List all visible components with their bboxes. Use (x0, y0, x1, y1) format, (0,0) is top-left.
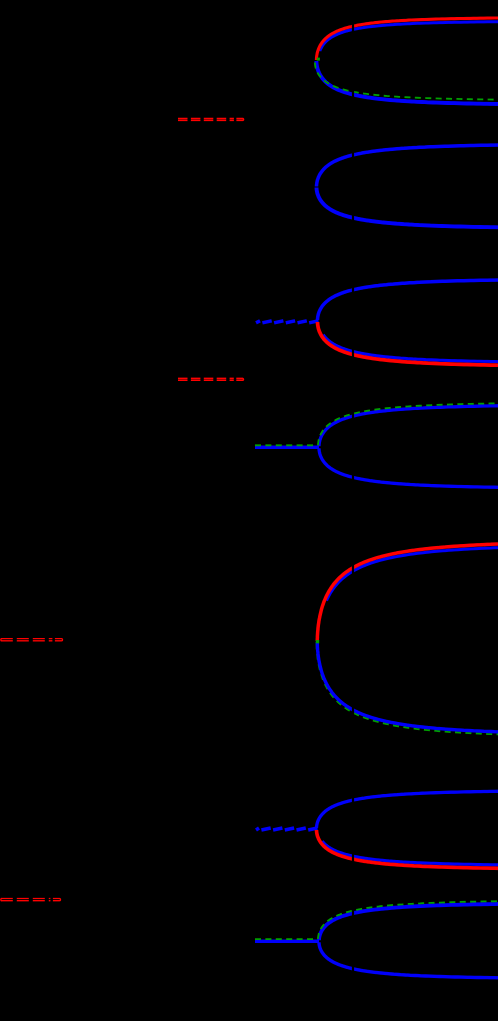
wire: B6 dashed blue stem line (256, 828, 318, 830)
wire: B7 lower branch blue curve (319, 942, 498, 978)
node: green fold marker at B5 vertex (316, 640, 319, 643)
wire: black vertical bifurcation marker line x=352 (352, 0, 354, 1021)
wire: B3 upper branch blue curve (318, 280, 498, 320)
wire: B4 lower branch blue curve (319, 448, 498, 487)
wire: B4 upper branch blue curve (319, 406, 498, 446)
wire: B5 lower branch green dashed curve (317, 644, 498, 735)
wire: B7 solid blue stem line (255, 940, 319, 944)
wire: B1 upper branch blue (inner) curve (320, 22, 498, 51)
wire: B5 upper branch red (outer) curve (317, 544, 498, 641)
wire: B5 upper branch blue (inner) curve (327, 548, 498, 601)
node: green fold marker at B1 vertex (317, 58, 320, 61)
wire: B2 upper branch blue curve (317, 145, 498, 187)
wire: B5 lower branch blue curve (317, 642, 498, 732)
wire: B1 lower branch thick blue curve (316, 61, 498, 104)
node: isola loop 2 red dashed (178, 377, 234, 379)
wire: B3 lower branch red (outer) curve (318, 322, 498, 365)
wire: B6 lower branch red (outer) curve (317, 830, 498, 868)
wire: B3 dashed blue stem line (256, 321, 319, 323)
wire: B7 upper branch blue curve (319, 904, 498, 940)
wire: B2 lower branch blue curve (317, 188, 498, 228)
wire: B1 lower branch green dashed curve (315, 63, 498, 100)
wire: B6 upper branch blue curve (317, 791, 498, 828)
wire: B7 upper branch green dashed curve (318, 901, 498, 939)
wire: B7 green dashed stem line (255, 938, 316, 940)
wire: B3 lower branch blue (inner) curve (323, 335, 498, 362)
wire: B4 solid blue stem line (255, 446, 319, 450)
node: isola loop 4 red dashed (1, 898, 51, 900)
node: isola loop 3 red dashed (1, 638, 53, 640)
wire: B1 upper branch red (outer) curve (316, 18, 498, 60)
wire: B4 green dashed stem line (255, 444, 316, 446)
wire: B6 lower branch blue (inner) curve (322, 841, 498, 865)
node: isola loop 1 red dashed (178, 118, 234, 120)
wire: B4 upper branch green dashed curve (318, 403, 498, 445)
